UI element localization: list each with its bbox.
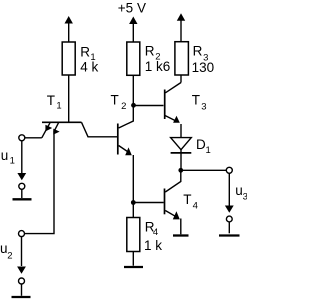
- svg-text:3: 3: [201, 101, 206, 112]
- svg-text:2: 2: [7, 251, 12, 262]
- svg-text:D: D: [196, 137, 206, 152]
- svg-text:+5 V: +5 V: [118, 1, 146, 16]
- svg-text:1: 1: [206, 145, 211, 156]
- svg-text:R: R: [145, 44, 155, 59]
- svg-text:1: 1: [10, 156, 15, 167]
- svg-text:4: 4: [153, 227, 158, 238]
- svg-text:2: 2: [121, 101, 126, 112]
- svg-text:3: 3: [243, 192, 247, 203]
- svg-text:R: R: [80, 44, 90, 59]
- svg-text:1: 1: [56, 100, 61, 111]
- svg-text:R: R: [193, 44, 203, 59]
- svg-text:u: u: [235, 183, 243, 198]
- svg-text:130: 130: [192, 60, 215, 75]
- svg-text:1 k6: 1 k6: [145, 59, 171, 74]
- svg-text:1 k: 1 k: [144, 238, 162, 253]
- svg-text:4 k: 4 k: [80, 60, 98, 75]
- svg-text:T: T: [183, 192, 191, 207]
- svg-text:u: u: [1, 148, 9, 163]
- svg-text:T: T: [47, 93, 55, 108]
- svg-text:T: T: [111, 93, 119, 108]
- svg-text:T: T: [192, 93, 200, 108]
- svg-text:4: 4: [193, 200, 198, 211]
